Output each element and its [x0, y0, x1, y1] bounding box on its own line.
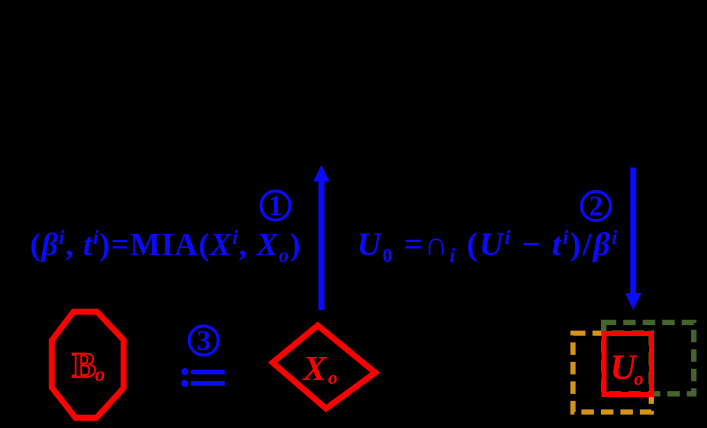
svg-text:3: 3	[197, 326, 211, 357]
label B_o (blackboard bold B)	[72, 345, 105, 386]
orange dashed rectangle	[573, 333, 651, 412]
colon-equals symbol :=	[181, 368, 225, 387]
svg-text:(βi, ti)=MIA(Xi, Xo): (βi, ti)=MIA(Xi, Xo)	[30, 226, 301, 267]
svg-text:o: o	[634, 369, 644, 390]
svg-text:o: o	[328, 368, 338, 389]
formula F1: (beta^i, t^i)=MIA(X^i, X_o)	[30, 226, 301, 267]
red rectangle U_o	[604, 334, 652, 395]
green dashed rectangle	[604, 322, 694, 393]
formula F2: U_0 = cap_i (U^i - t^i)/beta^i	[357, 227, 619, 267]
label X_o (script X)	[302, 349, 338, 389]
svg-text:B: B	[72, 345, 96, 385]
circled number 1	[261, 191, 290, 220]
circled number 2	[582, 192, 611, 221]
label U_o (script U)	[610, 347, 644, 390]
svg-text:o: o	[95, 364, 105, 386]
octagon B_o	[52, 312, 124, 418]
up arrow	[313, 165, 329, 310]
svg-text:2: 2	[589, 192, 603, 223]
svg-text:1: 1	[269, 191, 283, 222]
down arrow	[625, 168, 641, 311]
svg-text:X: X	[302, 349, 328, 388]
svg-text:U0 =∩i (Ui − ti)/βi: U0 =∩i (Ui − ti)/βi	[357, 227, 619, 267]
circled number 3	[189, 326, 218, 355]
diamond X_o	[273, 325, 376, 408]
